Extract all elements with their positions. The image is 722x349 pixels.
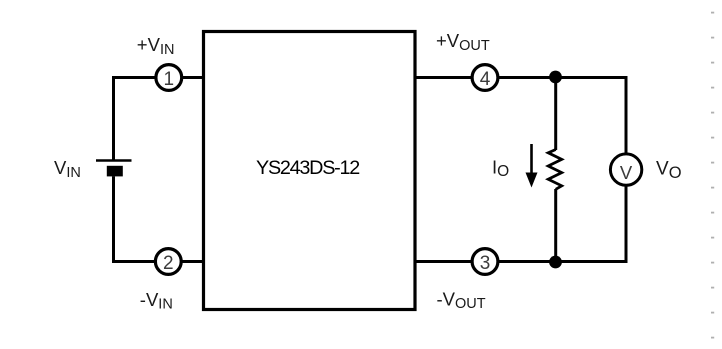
wire pin 2 to U1 [182, 260, 204, 263]
page edge tick marks [711, 12, 714, 339]
battery V1 negative plate [107, 166, 123, 177]
junction node top [549, 71, 562, 84]
load resistor RL [548, 150, 562, 190]
wire load resistor to bottom junction [554, 189, 557, 262]
wire pin 1 to U1 [183, 76, 204, 79]
svg-text:V: V [620, 162, 633, 183]
wire pin 4 to voltmeter branch [499, 78, 627, 154]
wire battery- to pin 2 [114, 176, 156, 261]
voltmeter M1 [610, 154, 641, 185]
svg-text:1: 1 [164, 69, 175, 90]
wire battery+ to pin 1 [114, 78, 156, 162]
DC/DC converter module U1 [204, 32, 416, 310]
wire junction to load resistor [554, 78, 557, 151]
wire pin 3 to U1 [415, 260, 472, 263]
svg-text:2: 2 [163, 253, 174, 274]
junction node bottom [549, 256, 562, 269]
svg-text:3: 3 [480, 253, 491, 274]
wire U1 to pin 4 [415, 76, 472, 79]
pin circle 2 [155, 249, 181, 275]
svg-text:4: 4 [480, 69, 491, 90]
svg-text:YS243DS-12: YS243DS-12 [256, 157, 359, 179]
battery V1 positive plate [96, 159, 132, 162]
pin circle 4 [472, 65, 498, 91]
wire voltmeter to bottom rail [499, 187, 627, 262]
current arrow IO [530, 144, 533, 176]
pin circle 1 [156, 65, 182, 91]
pin circle 3 [472, 249, 498, 275]
